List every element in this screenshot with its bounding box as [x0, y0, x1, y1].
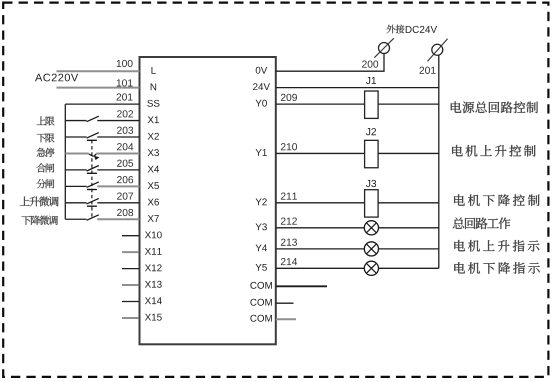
pin X5	[148, 182, 159, 189]
wire 200: 0V to terminal	[276, 54, 384, 72]
switch label 上限	[37, 116, 55, 125]
net label 205	[117, 160, 133, 167]
switch label 下降微调	[22, 216, 58, 225]
supply label DC24V	[406, 26, 437, 33]
switch S7 down-jog contact blade	[87, 215, 99, 221]
net label 209	[281, 94, 297, 101]
pin X14	[145, 297, 162, 304]
left bus wire (node 201 common)	[64, 104, 66, 219]
pin COM (right 9)	[250, 299, 272, 306]
switch S4 close contact blade	[87, 166, 99, 172]
pin 0V (right 0)	[256, 67, 268, 74]
pin X12	[145, 264, 162, 271]
lamp HL2 circle	[364, 242, 378, 256]
lamp HL2 cross	[366, 244, 376, 254]
pin X7	[148, 215, 159, 222]
stub wire X10	[122, 235, 139, 237]
wire relay J1 to right bus	[378, 103, 439, 105]
wire 213: lamp HL2 row	[276, 248, 439, 250]
switch S7 down-jog left wire	[65, 218, 86, 220]
pin COM (right 10)	[250, 315, 272, 322]
pin X15	[145, 314, 162, 321]
function label 电机下降指示	[454, 262, 539, 274]
wire 214: lamp HL3 row	[276, 267, 439, 269]
pushbutton linkage dashed line	[91, 140, 93, 217]
wire relay J2 to right bus	[378, 152, 439, 154]
pin SS	[147, 100, 159, 107]
pin X13	[145, 281, 162, 288]
pin Y0 (right 2)	[256, 100, 267, 107]
net label 212	[281, 217, 297, 224]
net label 100	[117, 60, 133, 67]
PLC controller U1	[140, 57, 276, 344]
wire 209: relay J1 left	[276, 103, 365, 105]
pin COM (right 8)	[250, 282, 272, 289]
function label 电源总回路控制	[451, 101, 538, 113]
pushbutton actuator bar 4	[87, 205, 97, 207]
switch S5 open right wire	[97, 185, 139, 187]
switch S1 upper-limit left wire	[65, 120, 86, 122]
net label 213	[281, 239, 297, 246]
terminal X2-201 circle	[432, 44, 443, 55]
pushbutton actuator bar 3	[87, 189, 97, 191]
switch label 分闸	[37, 179, 55, 188]
net label 202	[117, 110, 133, 117]
function label 电机下降控制	[454, 194, 539, 206]
supply label 外接	[387, 25, 405, 34]
switch label 合闸	[37, 163, 55, 172]
pin Y3 (right 5)	[256, 223, 267, 230]
pin X1	[148, 116, 159, 123]
switch S4 close left wire	[65, 169, 86, 171]
switch label 急停	[37, 148, 55, 157]
pushbutton actuator bar 1	[87, 139, 97, 141]
stub wire X15	[122, 317, 139, 319]
switch S3 e-stop NC contact	[89, 154, 94, 156]
stub wire X13	[122, 284, 139, 286]
pin Y4 (right 6)	[256, 245, 267, 252]
net label 201 right	[420, 67, 436, 74]
wire COM 2	[276, 302, 294, 304]
pin X3	[148, 149, 159, 156]
wire 211: relay J3 left	[276, 202, 365, 204]
switch S7 down-jog right wire	[97, 218, 139, 220]
switch S2 lower-limit right wire	[97, 136, 139, 138]
function label 电机上升指示	[454, 240, 539, 252]
pin X6	[148, 199, 159, 206]
relay label J3	[366, 180, 376, 187]
relay coil J1	[365, 91, 379, 118]
pin X2	[148, 133, 159, 140]
pin X11	[145, 248, 162, 255]
switch S6 up-jog left wire	[65, 202, 86, 204]
switch S3 e-stop right wire	[96, 152, 139, 154]
function label 电机上升控制	[452, 145, 535, 157]
pin N	[151, 84, 156, 91]
switch label 下限	[37, 133, 55, 142]
wire 201 to pin SS	[65, 103, 139, 105]
relay label J1	[366, 77, 376, 84]
pushbutton actuator bar 2	[87, 172, 97, 174]
switch S5 open contact blade	[87, 182, 99, 188]
switch label 上升微调	[20, 196, 59, 206]
pin Y1 (right 3)	[256, 149, 267, 156]
switch S5 open left wire	[65, 185, 86, 187]
relay coil J3	[365, 190, 379, 217]
terminal X2-201 slash	[427, 39, 447, 62]
switch S2 lower-limit left wire	[65, 136, 86, 138]
relay coil J2	[365, 140, 379, 167]
wire 212: lamp HL1 row	[276, 227, 439, 229]
lamp HL3 circle	[364, 261, 378, 275]
net label 200	[362, 60, 378, 67]
wire COM 1	[276, 285, 327, 287]
lamp HL3 cross	[366, 263, 376, 273]
net label 207	[117, 192, 133, 199]
net label 210	[281, 143, 297, 150]
switch S2 lower-limit contact blade	[87, 133, 99, 139]
AC source label AC220V	[35, 74, 78, 82]
pin 24V (right 1)	[253, 83, 270, 90]
net label 203	[117, 127, 133, 134]
net label 101	[117, 79, 133, 86]
pin X4	[148, 166, 159, 173]
lamp HL1 cross	[366, 223, 376, 233]
wire 100 to pin L	[57, 70, 140, 72]
switch S6 up-jog right wire	[97, 202, 139, 204]
net label 214	[281, 258, 297, 265]
net label 211	[281, 192, 297, 199]
wire 201: 24V to right bus	[276, 87, 439, 89]
stub wire X11	[122, 251, 139, 253]
pin X10	[145, 231, 162, 238]
switch S1 upper-limit contact blade	[87, 116, 99, 122]
pin Y2 (right 4)	[256, 198, 267, 205]
net label 201 left	[117, 93, 133, 100]
stub wire X12	[122, 268, 139, 270]
lamp HL1 circle	[364, 221, 378, 235]
wire COM 3	[276, 318, 296, 320]
net label 206	[117, 176, 133, 183]
wire 210: relay J2 left	[276, 152, 365, 154]
relay label J2	[366, 128, 376, 135]
net label 208	[117, 209, 133, 216]
stub wire X14	[122, 301, 139, 303]
switch S1 upper-limit right wire	[97, 120, 139, 122]
pin L	[151, 67, 155, 74]
wire 101 to pin N	[57, 87, 140, 89]
pin Y5 (right 7)	[256, 264, 267, 271]
wire relay J3 to right bus	[378, 202, 439, 204]
right bus wire (24V)	[438, 55, 440, 269]
terminal X1-200 slash	[374, 38, 394, 58]
function label 总回路工作	[453, 217, 511, 229]
switch S4 close right wire	[97, 169, 139, 171]
switch S3 e-stop left wire	[65, 152, 89, 154]
net label 204	[117, 143, 133, 150]
terminal X1-200 circle	[379, 43, 390, 54]
switch S6 up-jog contact blade	[87, 198, 99, 204]
